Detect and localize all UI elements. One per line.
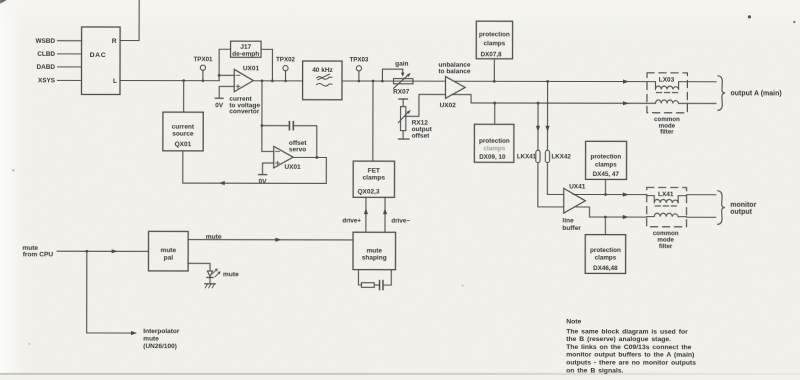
svg-text:from CPU: from CPU — [23, 251, 54, 258]
wire UX02 cold output rail — [452, 95, 647, 104]
svg-text:to balance: to balance — [438, 68, 471, 75]
node junction current source — [182, 79, 185, 82]
link LKX41 — [536, 150, 540, 162]
svg-text:CLBD: CLBD — [37, 51, 55, 58]
wire snubber loop — [358, 270, 361, 285]
op-amp UX01 offset servo — [274, 146, 293, 168]
protection clamps DX46,48 — [585, 235, 625, 274]
svg-text:DAC: DAC — [90, 52, 107, 59]
svg-text:The same block diagram is used: The same block diagram is used for — [566, 328, 688, 335]
node junction cap branch — [261, 124, 264, 127]
wire FET clamp stem — [372, 81, 374, 161]
wire UX41 cold output — [576, 207, 647, 217]
wire mute from CPU — [57, 250, 148, 252]
svg-text:UX41: UX41 — [569, 183, 586, 190]
svg-text:DX45, 47: DX45, 47 — [593, 171, 620, 178]
svg-text:mute: mute — [223, 271, 239, 278]
svg-text:gain: gain — [395, 60, 408, 67]
svg-text:the B (reserve) analogue stage: the B (reserve) analogue stage. — [566, 336, 671, 343]
svg-text:clamps: clamps — [484, 40, 506, 47]
svg-text:offset: offset — [412, 133, 431, 140]
wire servo branch down — [261, 81, 263, 152]
svg-text:R: R — [112, 38, 117, 45]
wire XSYS input — [57, 79, 81, 81]
node junction DX45 stem — [604, 193, 607, 196]
svg-text:filter: filter — [660, 129, 674, 136]
ground LED earth — [205, 283, 215, 285]
protection clamps DX07,8 — [476, 21, 512, 59]
svg-text:protection: protection — [479, 31, 510, 38]
transistor FET clamps QX02,3 — [353, 161, 394, 197]
scan speckles — [748, 15, 751, 18]
node junction LKX41 top — [537, 102, 540, 105]
common mode filter LX03 — [647, 73, 687, 113]
wire interpolator mute branch — [87, 251, 134, 333]
wire servo output — [293, 157, 326, 183]
wire drive- — [384, 197, 386, 232]
resistor snubber R — [361, 283, 374, 288]
wire into servo inverting input — [262, 150, 274, 152]
node brace monitor output — [718, 191, 725, 225]
protection clamps DX09,10 — [474, 124, 514, 162]
wire DX09 stem — [494, 103, 496, 124]
svg-text:UX01: UX01 — [243, 65, 260, 72]
svg-text:pal: pal — [164, 255, 174, 262]
svg-text:TPX01: TPX01 — [194, 56, 213, 63]
svg-text:monitor output buffers to the: monitor output buffers to the A (main) — [566, 352, 694, 359]
mute shaping block — [353, 232, 396, 269]
svg-text:on the B signals.: on the B signals. — [566, 367, 624, 374]
svg-text:WSBD: WSBD — [36, 38, 56, 45]
svg-text:40 kHz: 40 kHz — [312, 67, 333, 74]
svg-text:mute: mute — [143, 336, 159, 343]
svg-text:protection: protection — [590, 247, 621, 254]
svg-text:mute: mute — [206, 234, 222, 241]
svg-text:drive−: drive− — [391, 217, 410, 224]
wire current source top stem — [183, 81, 185, 112]
node junction DX46 stem — [604, 216, 607, 219]
svg-text:clamps: clamps — [595, 255, 617, 262]
wire servo plus stub — [263, 163, 274, 174]
svg-text:TPX02: TPX02 — [276, 56, 295, 63]
wire drive+ — [365, 197, 367, 232]
wire servo feedback rail — [183, 182, 326, 184]
filter 40 kHz block — [303, 61, 342, 100]
svg-text:J17: J17 — [240, 44, 251, 51]
wire J17 feedback left leg — [219, 49, 230, 81]
wire DX07 stem — [493, 59, 495, 81]
svg-text:de-emph: de-emph — [232, 51, 259, 58]
svg-text:shaping: shaping — [362, 255, 387, 262]
wire L output main rail — [120, 80, 219, 82]
wire arrow left on feedback rail — [219, 181, 225, 185]
svg-text:DX09, 10: DX09, 10 — [479, 154, 506, 161]
wire 40kHz output rail — [342, 80, 445, 82]
wire cap left lead — [262, 125, 289, 127]
wire arrow to LX03 hot — [623, 79, 629, 83]
svg-text:outputs - there are no monitor: outputs - there are no monitor outputs — [566, 359, 696, 366]
svg-text:buffer: buffer — [562, 225, 581, 232]
wire into UX01 inverting input — [219, 74, 234, 76]
DAC U1 — [81, 27, 120, 95]
wire current source bottom stem — [182, 151, 184, 183]
wire DX45 stem — [604, 179, 606, 194]
current source QX01 — [163, 112, 203, 151]
svg-text:output A (main): output A (main) — [730, 90, 781, 97]
resistor RX12 output offset pot — [399, 98, 408, 100]
node junction gain loop — [381, 80, 384, 83]
node junction minus branch — [218, 74, 221, 77]
capacitor J17 de-emph block — [231, 41, 262, 57]
test point TPX02 — [283, 66, 288, 71]
svg-text:clamps: clamps — [483, 145, 505, 152]
svg-text:drive+: drive+ — [342, 217, 361, 224]
svg-text:L: L — [113, 78, 117, 85]
svg-text:Note: Note — [566, 318, 581, 325]
svg-text:filter: filter — [659, 243, 673, 250]
svg-text:DX07,8: DX07,8 — [481, 51, 503, 58]
svg-text:0V: 0V — [215, 102, 224, 109]
wire arrow to LX03 cold — [623, 101, 629, 105]
node junction LKX42 top — [546, 80, 549, 83]
svg-text:LX03: LX03 — [659, 76, 675, 83]
resistor RX07 gain pot — [393, 79, 413, 84]
node brace output A — [718, 76, 725, 111]
svg-text:LX41: LX41 — [658, 191, 674, 198]
wire WSBD input — [58, 40, 82, 42]
wire DABD input — [58, 66, 82, 68]
svg-text:monitor: monitor — [730, 202, 756, 209]
svg-text:TPX03: TPX03 — [349, 57, 368, 64]
svg-text:mute: mute — [161, 247, 177, 254]
wire RX12 wiper to UX02 plus — [405, 94, 446, 116]
wire UX02 hot output rail — [454, 80, 647, 82]
capacitor snubber C — [379, 281, 381, 290]
capacitor servo C — [288, 122, 290, 130]
svg-text:QX01: QX01 — [175, 141, 192, 148]
diode LED mute — [207, 271, 212, 276]
mute pal block — [149, 231, 189, 271]
wire LX03 to output A — [687, 81, 716, 83]
wire J17 feedback right leg — [261, 49, 272, 81]
wire LKX41 vertical — [538, 103, 564, 207]
svg-text:current: current — [172, 124, 195, 131]
svg-text:0V: 0V — [259, 178, 268, 185]
svg-text:clamps: clamps — [595, 161, 617, 168]
svg-text:protection: protection — [590, 154, 621, 161]
wire LX41 to monitor output — [687, 194, 716, 196]
svg-text:UX01: UX01 — [284, 164, 301, 171]
note text block — [566, 318, 696, 374]
wire LKX42 vertical — [547, 81, 564, 194]
svg-text:QX02,3: QX02,3 — [357, 189, 379, 196]
node junction DX09 stem — [493, 102, 496, 105]
op-amp UX01 current to voltage — [234, 69, 253, 91]
wire DX46 stem — [604, 217, 606, 235]
svg-text:LKX41: LKX41 — [517, 153, 537, 160]
op-amp UX02 unbalance to balance — [445, 77, 465, 99]
link LKX42 — [545, 150, 549, 162]
wire CLBD input — [58, 53, 82, 55]
svg-text:output: output — [730, 209, 752, 216]
svg-text:XSYS: XSYS — [38, 77, 56, 84]
svg-text:The links on the C09/13s conne: The links on the C09/13s connect the — [566, 344, 692, 351]
svg-text:LKX42: LKX42 — [552, 153, 572, 160]
common mode filter LX41 — [647, 187, 687, 226]
wire UX01 plus stub — [219, 86, 234, 97]
ground 0V UX01 — [215, 97, 223, 99]
wire gain wiper loop — [382, 69, 402, 81]
wire UX01 output — [253, 80, 302, 82]
svg-text:(UN26/100): (UN26/100) — [143, 343, 177, 350]
svg-text:source: source — [172, 131, 194, 138]
wire snubber right leg — [384, 270, 392, 285]
ground 0V servo — [259, 174, 267, 176]
op-amp UX41 line buffer — [564, 188, 586, 213]
svg-text:DX46,48: DX46,48 — [593, 265, 618, 272]
svg-text:clamps: clamps — [363, 175, 386, 182]
svg-text:protection: protection — [479, 138, 510, 145]
svg-text:UX02: UX02 — [440, 102, 457, 109]
test point TPX03 — [356, 66, 361, 71]
node junction FET clamp branch — [372, 80, 375, 83]
svg-text:FET: FET — [368, 167, 380, 174]
test point TPX01 — [200, 65, 205, 70]
wire cap right lead — [294, 126, 317, 158]
svg-text:Interpolator: Interpolator — [143, 328, 180, 335]
node junction servo branch — [261, 79, 264, 82]
svg-text:RX07: RX07 — [393, 89, 410, 96]
svg-text:convertor: convertor — [229, 108, 259, 115]
protection clamps DX45,47 — [585, 141, 626, 179]
wire mute pal to mute shaping — [188, 239, 353, 241]
node junction DX07 stem — [493, 80, 496, 83]
wire R output — [120, 0, 139, 41]
wire LED branch — [188, 263, 210, 270]
wire UX41 hot output — [573, 193, 646, 195]
svg-text:servo: servo — [289, 146, 306, 153]
svg-text:line: line — [562, 218, 574, 225]
svg-text:mute: mute — [366, 247, 382, 254]
svg-text:DABD: DABD — [37, 64, 56, 71]
